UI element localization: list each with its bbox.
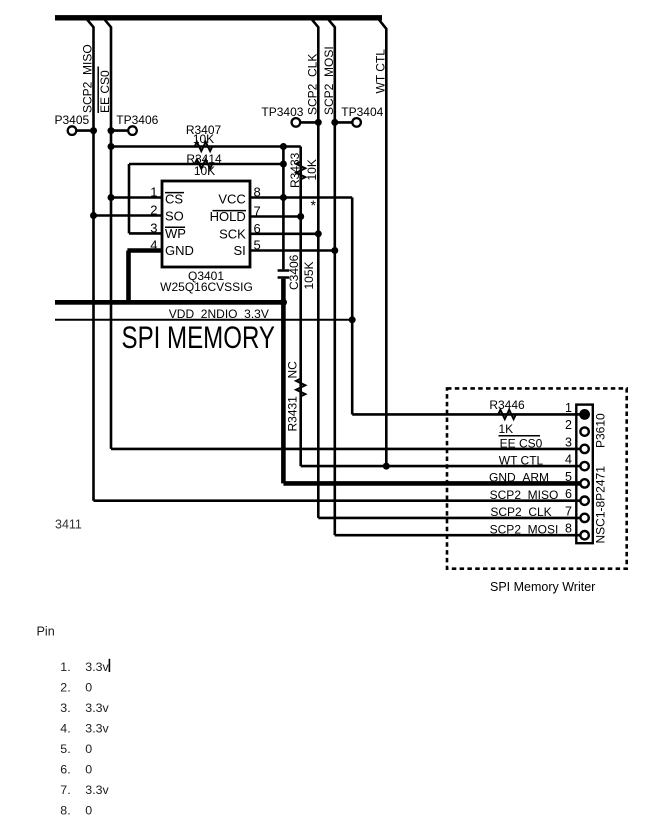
ground bar (thick) xyxy=(55,300,286,305)
svg-text:8: 8 xyxy=(565,522,572,536)
connector pin 2 contact xyxy=(580,427,588,435)
svg-text:6: 6 xyxy=(565,487,572,501)
node junction SO/SCP2_MISO xyxy=(90,212,97,219)
svg-text:4: 4 xyxy=(150,238,157,253)
net label EE_CS0 overline xyxy=(97,67,99,114)
svg-text:SCP2_MOSI: SCP2_MOSI xyxy=(490,522,559,536)
svg-text:2.: 2. xyxy=(60,681,70,695)
svg-text:4: 4 xyxy=(565,453,572,467)
testpoint TP3406 circle xyxy=(128,126,137,135)
connector pin 6 contact xyxy=(580,497,588,505)
svg-text:VCC: VCC xyxy=(218,192,245,207)
svg-text:SCK: SCK xyxy=(219,226,246,241)
svg-text:3: 3 xyxy=(565,435,572,449)
connector pin 7 contact xyxy=(580,514,588,522)
svg-text:7: 7 xyxy=(254,204,261,219)
svg-text:4.: 4. xyxy=(60,722,70,736)
svg-text:6.: 6. xyxy=(60,763,70,777)
wire R3433 top segment xyxy=(299,147,302,467)
svg-text:SCP2_MISO: SCP2_MISO xyxy=(490,488,559,502)
svg-text:2: 2 xyxy=(565,418,572,432)
wire chamfer SCP2_MISO to bus xyxy=(87,19,94,27)
wire pin6 SCK xyxy=(250,233,318,236)
svg-text:0: 0 xyxy=(85,804,92,818)
svg-text:105K: 105K xyxy=(302,261,316,289)
wire pin4 GND horizontal xyxy=(127,248,162,253)
testpoint TP3403 wire xyxy=(298,121,318,124)
node junction TP3404/SCP2_MOSI xyxy=(331,119,338,126)
svg-text:WT CTL: WT CTL xyxy=(499,454,544,468)
svg-text:1.: 1. xyxy=(60,660,70,674)
node junction pullup/VCC pin wire xyxy=(280,194,287,201)
svg-text:SCP2_MISO: SCP2_MISO xyxy=(81,44,95,113)
node junction C3406/ground bar xyxy=(280,299,287,306)
svg-text:SPI MEMORY: SPI MEMORY xyxy=(122,320,276,355)
svg-text:GND_ARM: GND_ARM xyxy=(489,471,549,485)
connector P3610 body xyxy=(576,405,593,544)
testpoint TP3404 wire xyxy=(335,121,355,124)
svg-text:7: 7 xyxy=(565,504,572,518)
svg-text:3.3v: 3.3v xyxy=(85,660,109,674)
wire EE_CS0 vertical xyxy=(110,27,113,449)
wire row5 GND_ARM xyxy=(283,481,581,486)
testpoint TP3406 wire xyxy=(111,129,131,132)
resistor R3431 zigzag xyxy=(296,379,305,397)
svg-text:NSC1-8P2471: NSC1-8P2471 xyxy=(594,466,608,544)
pin name CS overline xyxy=(165,192,184,194)
testpoint TP3404 circle xyxy=(352,118,361,127)
wire VCC drop column xyxy=(351,198,354,415)
svg-text:NC: NC xyxy=(285,361,299,379)
svg-text:2: 2 xyxy=(150,203,157,218)
resistor R3433 zigzag xyxy=(296,162,305,180)
node junction SCK/SCP2_CLK xyxy=(315,230,322,237)
wire pin2 SO to SCP2_MISO xyxy=(94,214,163,217)
capacitor C3406 top plate xyxy=(278,269,290,272)
svg-text:TP3406: TP3406 xyxy=(116,113,158,127)
node junction SI/SCP2_MOSI xyxy=(331,247,338,254)
wire pin8 VCC xyxy=(250,196,352,199)
wire R3414 row xyxy=(129,163,283,166)
svg-text:5: 5 xyxy=(565,470,572,484)
svg-text:R3433: R3433 xyxy=(288,152,302,188)
wire pin3 WP xyxy=(129,232,162,235)
pin name HOLD overline xyxy=(213,210,247,212)
wire row6 SCP2_MISO xyxy=(94,499,582,502)
wire row7 SCP2_CLK xyxy=(318,517,581,520)
svg-text:R3431: R3431 xyxy=(285,396,299,432)
op-amp U1 (chip W25Q16 outline) xyxy=(162,181,250,267)
net label EE_CS0 overline (connector) xyxy=(499,435,541,437)
wire row3 EE_CS0 xyxy=(111,448,581,451)
power bus bar (top) xyxy=(55,15,382,20)
wire SCP2_CLK vertical xyxy=(317,27,320,518)
svg-text:1: 1 xyxy=(565,401,572,415)
wire VCC pullup column xyxy=(282,147,285,270)
connector pin 5 contact xyxy=(580,479,588,487)
wire pin5 SI xyxy=(250,249,335,252)
svg-text:3.3v: 3.3v xyxy=(85,783,109,797)
svg-text:8.: 8. xyxy=(60,804,70,818)
svg-text:0: 0 xyxy=(85,742,92,756)
svg-text:SCP2_CLK: SCP2_CLK xyxy=(490,505,551,519)
connector pin 8 contact xyxy=(580,531,588,539)
node junction R3407/VCC pullup column xyxy=(280,143,287,150)
resistor R3414 zigzag xyxy=(195,159,213,168)
wire row1 3.3V xyxy=(352,413,581,416)
wire WP riser xyxy=(128,164,131,233)
testpoint P3405 wire xyxy=(74,129,94,132)
resistor R3407 zigzag xyxy=(195,142,213,151)
node junction R3414/VCC pullup column xyxy=(280,161,287,168)
connector pin 1 contact (filled) xyxy=(579,409,590,420)
wire chamfer EE_CS0 to bus xyxy=(104,19,111,27)
wire chamfer WT_CTL to bus xyxy=(379,19,387,29)
node junction VCC column/VDD wire xyxy=(349,316,356,323)
svg-text:5.: 5. xyxy=(60,742,70,756)
svg-text:C3406: C3406 xyxy=(287,254,301,290)
svg-text:0: 0 xyxy=(85,763,92,777)
svg-text:1: 1 xyxy=(150,185,157,200)
wire row8 SCP2_MOSI xyxy=(335,534,581,537)
wire pin7 HOLD xyxy=(250,215,301,218)
svg-text:SCP2_CLK: SCP2_CLK xyxy=(306,54,320,115)
svg-text:EE CS0: EE CS0 xyxy=(500,436,543,450)
svg-text:WT CTL: WT CTL xyxy=(374,49,388,94)
svg-text:SO: SO xyxy=(165,209,184,224)
svg-text:WP: WP xyxy=(165,226,186,241)
svg-text:*: * xyxy=(311,197,317,213)
svg-text:HOLD: HOLD xyxy=(210,209,246,224)
svg-text:1K: 1K xyxy=(498,422,513,436)
svg-text:GND: GND xyxy=(165,243,194,258)
svg-text:VDD_2NDIO_3.3V: VDD_2NDIO_3.3V xyxy=(169,307,269,321)
wire VDD_2NDIO_3.3V xyxy=(55,319,352,321)
svg-text:3411: 3411 xyxy=(55,518,82,532)
wire pin4 GND vertical to ground bar xyxy=(126,251,131,303)
svg-text:3.3v: 3.3v xyxy=(85,701,109,715)
node junction R3433/HOLD xyxy=(297,213,304,220)
wire chamfer SCP2_CLK to bus xyxy=(312,19,319,27)
testpoint P3405 circle xyxy=(68,126,77,135)
wire R3407 row xyxy=(111,145,301,148)
svg-text:W25Q16CVSSIG: W25Q16CVSSIG xyxy=(160,280,253,294)
node junction R3407/EE_CS0 xyxy=(108,143,115,150)
wire SCP2_MOSI vertical xyxy=(333,27,336,536)
svg-text:P3405: P3405 xyxy=(55,113,90,127)
connector pin 3 contact xyxy=(580,445,588,453)
svg-text:7.: 7. xyxy=(60,783,70,797)
wire SCP2_MISO vertical xyxy=(92,27,95,501)
text cursor caret xyxy=(108,659,110,672)
node junction TP3403/SCP2_CLK xyxy=(315,119,322,126)
svg-text:TP3404: TP3404 xyxy=(341,105,383,119)
wire C3406 to ground bar xyxy=(281,279,286,303)
svg-text:CS: CS xyxy=(165,192,183,207)
svg-text:SPI Memory Writer: SPI Memory Writer xyxy=(490,580,595,594)
svg-text:SI: SI xyxy=(234,243,246,258)
svg-text:P3610: P3610 xyxy=(594,413,608,448)
wire ground to connector row5 vertical xyxy=(281,302,286,483)
svg-text:EE CS0: EE CS0 xyxy=(98,70,112,113)
svg-text:0: 0 xyxy=(85,681,92,695)
resistor R3446 zigzag xyxy=(498,410,516,419)
svg-text:5: 5 xyxy=(254,238,261,253)
svg-text:3: 3 xyxy=(150,221,157,236)
wire row4 WT_CTL xyxy=(301,465,581,468)
wire chamfer SCP2_MOSI to bus xyxy=(328,19,335,27)
svg-text:10K: 10K xyxy=(305,159,319,180)
svg-text:3.: 3. xyxy=(60,701,70,715)
testpoint TP3403 circle xyxy=(292,118,301,127)
wire pin1 CS to EE_CS0 xyxy=(111,196,162,199)
svg-text:TP3403: TP3403 xyxy=(261,105,303,119)
node junction CS/EE_CS0 xyxy=(108,194,115,201)
svg-text:3.3v: 3.3v xyxy=(85,722,109,736)
capacitor C3406 bottom plate xyxy=(278,276,290,279)
svg-text:8: 8 xyxy=(254,185,261,200)
connector pin 4 contact xyxy=(580,462,588,470)
node junction P3405/SCP2_MISO xyxy=(90,127,97,134)
node junction WT_CTL/row4 xyxy=(383,463,390,470)
dashed boundary SPI Memory Writer xyxy=(447,388,627,568)
svg-text:Pin: Pin xyxy=(37,625,55,639)
pin name WP overline xyxy=(165,226,185,228)
svg-text:6: 6 xyxy=(254,221,261,236)
wire WT_CTL vertical xyxy=(385,28,388,466)
svg-text:R3446: R3446 xyxy=(489,398,525,412)
svg-text:SCP2_MOSI: SCP2_MOSI xyxy=(322,46,336,115)
node junction TP3406/EE_CS0 xyxy=(108,127,115,134)
